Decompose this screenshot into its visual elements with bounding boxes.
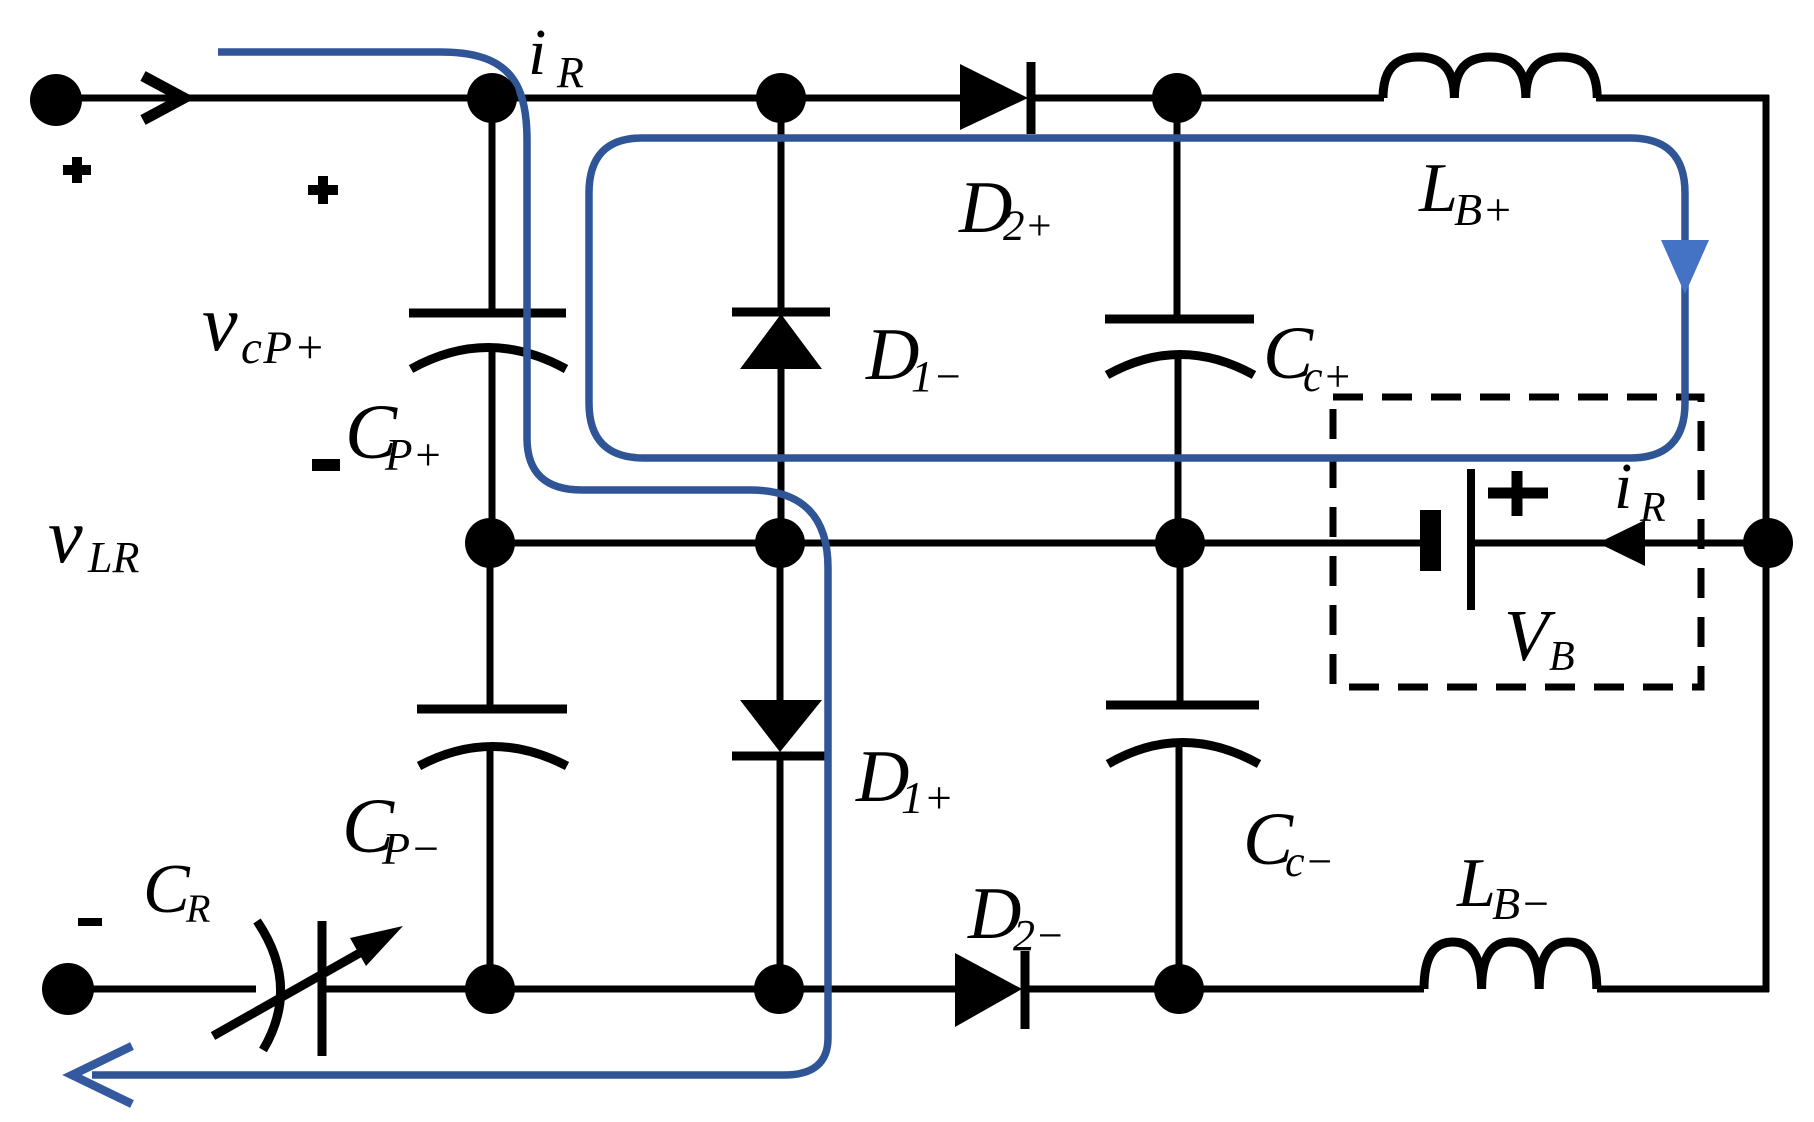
minus sign CP+ bottom (312, 459, 340, 471)
node middle Cc column (1155, 518, 1205, 568)
svg-text:R: R (185, 886, 210, 931)
svg-text:L: L (1456, 845, 1496, 922)
arrow i_B into battery (1598, 520, 1645, 566)
svg-text:i: i (1614, 450, 1632, 523)
svg-text:B+: B+ (1454, 184, 1513, 235)
capacitor CP+ (409, 313, 566, 369)
wire top rail left segment (56, 95, 962, 102)
node middle CP column (465, 518, 515, 568)
wire middle rail from CP node to battery (490, 540, 1422, 547)
node top Cc column (1152, 73, 1202, 123)
svg-text:v: v (48, 492, 83, 579)
svg-text:B−: B− (1492, 878, 1551, 929)
svg-text:i: i (528, 16, 546, 89)
svg-text:R: R (556, 48, 584, 97)
wire right column middle rail to Cc- (1177, 543, 1184, 706)
wire top rail right segment after D2+ (1031, 95, 1384, 102)
node middle D column (755, 518, 805, 568)
svg-text:C: C (143, 851, 191, 928)
capacitor Cc- (1106, 705, 1259, 764)
node middle right rail (1743, 518, 1793, 568)
svg-text:B: B (1549, 634, 1575, 680)
svg-text:P+: P+ (384, 430, 443, 480)
node bottom Cc column (1154, 964, 1204, 1014)
variable capacitor CR (213, 921, 403, 1056)
capacitor CP- (417, 709, 567, 766)
svg-text:1−: 1− (911, 352, 963, 401)
plus sign input (63, 157, 91, 183)
svg-text:c+: c+ (1303, 352, 1352, 401)
wire left column upper (node to CP+) (489, 98, 496, 314)
input arrow chevron (143, 76, 184, 120)
diode D1- (732, 312, 830, 369)
inductor L_B+ (1383, 57, 1597, 98)
node iR junction (467, 73, 517, 123)
wire left column between CP+ and middle rail (489, 352, 496, 543)
inductor L_B- (1424, 942, 1597, 989)
svg-text:1+: 1+ (901, 773, 954, 823)
svg-text:P−: P− (381, 823, 441, 874)
blue current loop rounded rectangle (589, 138, 1685, 458)
wire right rail vertical (1763, 95, 1770, 992)
svg-text:2+: 2+ (1003, 203, 1054, 250)
wire left column CP- to bottom rail (487, 750, 494, 989)
dashed box around battery (1333, 397, 1701, 687)
node top D column (756, 73, 806, 123)
blue exit arrowhead (72, 1046, 132, 1104)
svg-text:cP+: cP+ (241, 322, 327, 374)
wire right column top node to Cc+ (1174, 98, 1181, 320)
node bottom CP column (465, 964, 515, 1014)
blue loop arrowhead down (1661, 240, 1709, 294)
battery V_B positive plate (1467, 469, 1475, 610)
svg-text:2−: 2− (1013, 911, 1065, 960)
diode D2+ (960, 62, 1031, 134)
svg-text:L: L (1418, 150, 1458, 227)
wire bottom rail after D2- to L_B- (1025, 986, 1424, 993)
wire bottom rail after L_B- to corner (1597, 986, 1769, 993)
battery V_B negative plate (1420, 510, 1441, 571)
wire top rail after L_B+ to corner (1596, 95, 1769, 102)
diode D2- (955, 951, 1025, 1029)
blue current path entry S-curve to bottom exit (92, 52, 828, 1075)
battery plus sign (1488, 471, 1548, 516)
svg-text:v: v (202, 280, 238, 368)
diode D1+ (732, 700, 830, 756)
node input top terminal (30, 74, 82, 126)
capacitor Cc+ (1105, 319, 1254, 375)
wire middle rail battery to right rail (1475, 540, 1766, 547)
plus sign CP+ top (308, 176, 338, 204)
wire left column middle rail to CP- (487, 543, 494, 710)
svg-text:c−: c− (1285, 837, 1334, 886)
wire mid column middle rail to D1+ (777, 543, 784, 702)
wire mid column D1+ to bottom rail (777, 757, 784, 989)
wire right column Cc+ to middle rail (1175, 358, 1182, 543)
node input bottom terminal (42, 963, 94, 1015)
minus sign input bottom (78, 918, 102, 926)
wire bottom rail left of C_R (68, 986, 256, 993)
svg-text:R: R (1639, 485, 1666, 531)
wire bottom rail C_R to D2- (322, 986, 958, 993)
node bottom D column (754, 964, 804, 1014)
wire mid column D1- to middle rail (778, 366, 785, 543)
wire right column Cc- to bottom rail (1176, 745, 1183, 989)
svg-text:LR: LR (87, 533, 139, 582)
wire mid column top node to D1- (778, 98, 785, 314)
